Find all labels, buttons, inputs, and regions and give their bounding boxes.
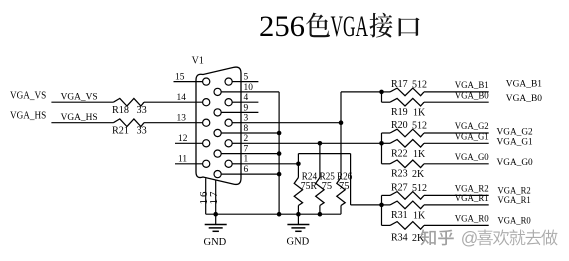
svg-text:1K: 1K [413,211,426,222]
wire node to R19 [382,101,391,103]
port label VGA_G1 [497,138,533,148]
wire red up [297,154,299,164]
svg-text:R17: R17 [391,79,408,90]
port label VGA_B0 [506,94,542,104]
svg-text:1K: 1K [413,107,426,118]
wire pin 5 [241,81,258,83]
wire R18 to pin 14 [144,101,203,103]
label R22 [391,149,408,160]
ground symbol 2 [287,225,309,232]
value 2K (R34) [412,233,425,244]
connector internal pin wires [221,82,241,175]
svg-text:VGA_R2: VGA_R2 [498,187,531,197]
ground symbol 1 stem [215,214,217,224]
resistor R22 1K [390,140,424,148]
wire red rail down [350,154,352,205]
wire pin 8 (GND) [241,132,279,134]
wire red to R divider [351,204,382,206]
svg-text:75R: 75R [301,181,317,192]
port label VGA_G0 [497,158,533,168]
junction red divider node [379,203,384,208]
connector V1 outline [196,67,241,184]
wire pin 10 (GND) [241,91,279,93]
pin number 10 [244,83,254,93]
svg-text:7: 7 [208,191,220,197]
resistor R26 75 [337,123,345,215]
label R31 [391,210,408,221]
pin number 12 [178,134,188,144]
junction green divider node [379,141,384,146]
svg-text:GND: GND [287,237,310,248]
port label VGA_R2 [498,187,531,197]
svg-text:12: 12 [178,134,188,144]
value 75 (R26) [339,181,350,192]
pin number 17 [208,191,220,205]
wire VGA_R0 [424,224,489,226]
net label VGA_B1 [455,81,489,91]
value 512 (R20) [412,121,427,132]
svg-text:VGA_VS: VGA_VS [10,90,46,101]
resistor R17 512 [390,88,424,96]
junction pin 1 / R24 [296,162,301,167]
port label VGA_R0 [498,217,531,227]
junction R25 / rail [318,212,323,217]
ground symbol 1 [205,225,227,232]
label R19 [391,107,408,118]
svg-text:R34: R34 [391,233,408,244]
wire pin 12 stub [175,142,203,144]
wire R19 feed down [381,92,383,102]
resistor R21 [113,119,144,127]
net label VGA_R0 [455,215,489,225]
pin number 11 [178,155,187,165]
label R23 [391,169,408,180]
resistor R27 512 [390,192,424,200]
svg-text:VGA_G2: VGA_G2 [455,122,489,132]
svg-text:256: 256 [259,10,305,43]
value 1K (R31) [413,211,426,222]
junction pin 17 / GND rail [213,212,218,217]
net label VGA_R2 [455,185,489,195]
svg-text:13: 13 [177,114,187,124]
wire node to R34 [382,224,391,226]
wire pin 15 stub [174,81,203,83]
svg-text:VGA_HS: VGA_HS [61,112,98,123]
label GND 2 [287,237,310,248]
value 75R (R24) [301,181,317,192]
wire VGA_B0 [424,101,489,103]
pin number 6 [244,165,249,175]
label GND 1 [204,237,227,248]
svg-text:R22: R22 [391,149,408,160]
junction pin 7 to GND [277,151,282,156]
svg-text:75: 75 [322,181,333,192]
label R17 [391,79,408,90]
pin number 13 [177,114,187,124]
wire VGA_G1 [424,142,489,144]
wire VGA_R1 [424,204,489,206]
net label VGA_R1 [455,194,489,204]
svg-text:11: 11 [178,155,187,165]
label R26 [337,172,352,183]
wire node to R17 [382,91,391,93]
wire node to R23 [382,163,391,165]
value 1K (R22) [413,149,426,160]
svg-text:VGA_G1: VGA_G1 [455,132,489,142]
wire R27 feed up [381,195,383,205]
svg-text:VGA_G0: VGA_G0 [497,158,533,168]
label V1 [192,56,204,67]
svg-text:R18: R18 [112,105,129,116]
wire R34 feed down [381,205,383,226]
wire pin 11 stub [175,163,203,165]
svg-text:33: 33 [137,125,147,136]
svg-text:VGA_R0: VGA_R0 [498,217,531,227]
connector middle pin circles [214,88,221,177]
svg-text:VGA_B1: VGA_B1 [506,79,542,89]
svg-text:R27: R27 [391,183,408,194]
svg-text:R31: R31 [391,210,408,221]
port label VGA_VS [10,90,46,101]
net label VGA_G1 [455,132,489,142]
svg-text:VGA_R1: VGA_R1 [455,194,489,204]
wire VGA_G0 [424,163,489,165]
wire VGA_G2 [424,132,489,134]
svg-text:1K: 1K [413,149,426,160]
label R21 [112,125,129,136]
value 1K (R19) [413,107,426,118]
wire pin 3 (blue) [241,122,341,124]
label R20 [391,120,408,131]
svg-text:15: 15 [175,72,185,82]
net label VGA_G0 [455,153,489,163]
wire blue to B divider [341,91,382,93]
value 2K (R23) [412,169,425,180]
svg-text:R23: R23 [391,169,408,180]
label R34 [391,233,408,244]
connector left pin circles [203,78,210,167]
port label VGA_R1 [498,196,531,206]
net label VGA_HS [61,112,98,123]
pin number 4 [244,93,249,103]
wire red rail [298,153,350,155]
wire R20 feed up [381,133,383,143]
svg-text:VGA_B0: VGA_B0 [455,91,489,101]
ground symbol 2 stem [297,214,299,224]
resistor R19 1K [390,98,424,106]
wire VGA_HS to R21 [51,122,113,124]
wire GND rail [206,213,341,215]
junction blue divider node [379,90,384,95]
wire VGA_B1 [424,91,489,93]
pin number 3 [244,114,249,124]
pin number 1 [244,155,249,165]
wire GND collector vertical [278,92,280,214]
svg-text:14: 14 [177,93,187,103]
port label VGA_G2 [497,127,533,137]
wire pin 9 [241,111,258,113]
wire pin 4 [241,101,258,103]
junction GND collector / rail [277,212,282,217]
wire pin 7 (GND) [241,153,279,155]
svg-text:@: @ [461,228,479,248]
pin number 2 [244,134,249,144]
svg-text:512: 512 [412,79,427,90]
svg-text:R21: R21 [112,125,129,136]
junction pin 2 / R25 [318,141,323,146]
resistor R24 75R [294,164,302,214]
svg-text:512: 512 [412,121,427,132]
resistor R34 2K [390,222,424,230]
svg-text:VGA_R2: VGA_R2 [455,185,489,195]
label R27 [391,183,408,194]
svg-text:512: 512 [412,183,427,194]
pin number 5 [244,73,249,83]
svg-text:VGA_G1: VGA_G1 [497,138,533,148]
pin number 8 [244,124,249,134]
junction R24 / rail [296,212,301,217]
svg-text:R20: R20 [391,120,408,131]
svg-text:VGA_HS: VGA_HS [10,110,46,121]
resistor R31 1K [390,201,424,209]
wire pin 16 [205,178,207,214]
svg-text:R19: R19 [391,107,408,118]
svg-text:V1: V1 [192,56,204,67]
wire pin 1 (red) [241,163,298,165]
svg-text:VGA_B0: VGA_B0 [506,94,542,104]
pin number 14 [177,93,187,103]
pin number 7 [244,145,249,155]
junction pin 8 to GND [277,131,282,136]
port label VGA_B1 [506,79,542,89]
wire pin 6 (GND) [241,173,279,175]
pin number 9 [244,103,249,113]
resistor R18 [113,98,144,106]
wire blue up [340,92,342,123]
wire node to R31 [382,204,391,206]
value 512 (R27) [412,183,427,194]
value 75 (R25) [322,181,333,192]
net label VGA_B0 [455,91,489,101]
svg-text:1: 1 [208,199,220,205]
junction pin 3 / R26 [339,120,344,125]
wire pin 2 (green) [241,142,382,144]
value 33 (R18) [137,105,147,116]
net label VGA_VS [61,92,98,103]
wire node to R27 [382,194,391,196]
pin number 15 [175,72,185,82]
wire node to R22 [382,142,391,144]
value 33 (R21) [137,125,147,136]
svg-text:75: 75 [339,181,350,192]
wire R23 feed down [381,143,383,164]
svg-text:VGA_R0: VGA_R0 [455,215,489,225]
svg-text:33: 33 [137,105,147,116]
label R24 [302,172,317,183]
title 256色VGA接口 [259,10,420,43]
svg-text:GND: GND [204,237,227,248]
label R25 [320,172,335,183]
label R18 [112,105,129,116]
resistor R23 2K [390,160,424,168]
wire R21 to pin 13 [144,122,203,124]
svg-text:VGA: VGA [331,10,369,43]
svg-text:VGA_VS: VGA_VS [61,92,98,103]
wire node to R20 [382,132,391,134]
svg-text:VGA_R1: VGA_R1 [498,196,531,206]
svg-text:2K: 2K [412,169,425,180]
net label VGA_G2 [455,122,489,132]
wire pin 17 [215,181,217,215]
watermark 知乎@喜欢就去做 [420,228,557,248]
port label VGA_HS [10,110,46,121]
connector outer pin circles [225,78,232,167]
svg-text:VGA_G0: VGA_G0 [455,153,489,163]
svg-text:VGA_G2: VGA_G2 [497,127,533,137]
junction pin 6 to GND [277,172,282,177]
resistor R20 512 [390,129,424,137]
resistor R25 75 [316,143,324,214]
wire VGA_R2 [424,194,489,196]
svg-text:VGA_B1: VGA_B1 [455,81,489,91]
pin number 16 [198,191,210,205]
value 512 (R17) [412,79,427,90]
wire VGA_VS to R18 [51,101,113,103]
